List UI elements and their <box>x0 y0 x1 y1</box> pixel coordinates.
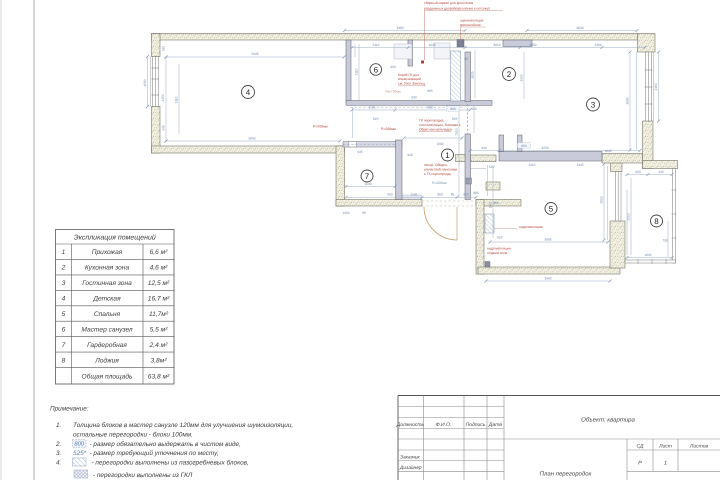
svg-text:940: 940 <box>481 146 487 150</box>
dim right window outside <box>658 52 660 121</box>
TABLE <box>56 230 175 385</box>
svg-text:Р: Р <box>638 461 642 467</box>
svg-text:4: 4 <box>62 296 66 303</box>
svg-text:800: 800 <box>427 105 433 109</box>
svg-text:1080: 1080 <box>436 142 443 146</box>
svg-text:Спальня: Спальня <box>94 311 121 318</box>
svg-text:лоджии пола: лоджии пола <box>487 251 507 255</box>
room circle 4 <box>242 86 255 99</box>
dashed line under partition <box>350 106 463 108</box>
svg-text:730: 730 <box>662 239 668 243</box>
threshold block <box>403 195 422 199</box>
dim hall v <box>458 108 460 197</box>
dim room6 top small <box>354 45 356 58</box>
svg-text:4450: 4450 <box>161 94 165 101</box>
explication table frame <box>56 230 175 385</box>
svg-text:525*: 525* <box>489 165 496 169</box>
dim room4 left v2 <box>178 64 180 134</box>
svg-text:1950: 1950 <box>342 211 349 215</box>
wall room5-loggia upper seg <box>611 161 623 172</box>
red leader long <box>424 11 426 60</box>
dim room5 h <box>490 241 608 243</box>
svg-text:R=200мм: R=200мм <box>381 127 396 131</box>
svg-text:5,5 м²: 5,5 м² <box>150 327 169 334</box>
svg-text:3010: 3010 <box>599 196 603 203</box>
svg-text:Листов: Листов <box>689 444 709 450</box>
dim below bottom right <box>486 280 610 282</box>
wall left exterior lower <box>152 107 161 154</box>
svg-text:3010: 3010 <box>493 43 500 47</box>
room circle 3 <box>587 98 600 111</box>
dim window left <box>147 57 149 107</box>
svg-text:3685: 3685 <box>544 237 551 241</box>
partition rooms3-5 gray <box>499 152 602 162</box>
svg-text:610: 610 <box>162 46 166 52</box>
svg-text:Короб ГК для: Короб ГК для <box>398 73 419 77</box>
svg-text:Детская: Детская <box>92 296 121 303</box>
dim hall extra h <box>471 168 486 170</box>
svg-text:8: 8 <box>62 357 66 364</box>
svg-text:940: 940 <box>162 125 166 131</box>
room circle 1 <box>442 149 454 161</box>
svg-text:Лист: Лист <box>658 444 672 450</box>
svg-text:860: 860 <box>437 193 443 197</box>
dim hall extra v <box>487 165 489 196</box>
svg-text:1: 1 <box>445 151 450 160</box>
svg-text:3110: 3110 <box>174 96 178 103</box>
DIMS <box>143 26 674 283</box>
svg-text:445: 445 <box>658 170 664 174</box>
dim above top wall <box>345 30 466 32</box>
svg-text:11,7м²: 11,7м² <box>149 311 169 318</box>
red leader shaft <box>460 27 462 39</box>
svg-text:2150: 2150 <box>654 83 658 90</box>
svg-text:- перегородки выполнены из паз: - перегородки выполнены из пазогребневых… <box>92 460 249 467</box>
svg-text:525*: 525* <box>373 117 380 121</box>
svg-text:1345: 1345 <box>576 163 583 167</box>
dim room8 left v <box>630 178 632 255</box>
svg-text:Обратная прокладка: Обратная прокладка <box>419 127 452 131</box>
loggia glazing bottom <box>625 260 676 263</box>
svg-text:3: 3 <box>62 280 66 287</box>
svg-text:Узел 50мм: Узел 50мм <box>385 90 401 94</box>
svg-text:в ГК перегородку: в ГК перегородку <box>424 172 451 176</box>
svg-text:коммуникаций: коммуникаций <box>398 77 421 81</box>
svg-text:5: 5 <box>62 311 66 318</box>
dim room2 v <box>474 50 476 98</box>
svg-text:СД: СД <box>637 444 644 450</box>
svg-text:935: 935 <box>357 150 363 154</box>
dim room5 left v <box>492 166 494 238</box>
svg-text:Гостинная зона: Гостинная зона <box>82 280 132 287</box>
svg-text:Подпись: Подпись <box>466 422 486 428</box>
window room5 to loggia <box>616 172 622 222</box>
svg-text:1: 1 <box>664 461 667 467</box>
svg-text:- перегородки выполнены из ГКЛ: - перегородки выполнены из ГКЛ <box>93 472 193 479</box>
dim room5 v <box>603 164 605 240</box>
dim loggia top <box>627 174 672 176</box>
room circle 7 <box>361 170 373 182</box>
svg-text:1195: 1195 <box>411 193 418 197</box>
svg-text:Прихожая: Прихожая <box>92 249 123 256</box>
svg-text:R=200мм: R=200мм <box>313 125 328 129</box>
wall right below window <box>643 121 654 169</box>
wall rooms3-5 stipple left <box>471 155 497 162</box>
hatched box room5 <box>485 214 494 233</box>
svg-text:раздвижных дверей(крепление к: раздвижных дверей(крепление к потолку) <box>424 6 490 10</box>
svg-text:2050: 2050 <box>529 43 536 47</box>
pilaster top wall <box>503 40 532 47</box>
svg-text:остальные перегородки - блоки: остальные перегородки - блоки 100мм. <box>73 432 193 439</box>
dim room2 right v <box>523 52 525 99</box>
svg-text:Гардеробная: Гардеробная <box>87 342 127 349</box>
wall loggia top band <box>643 161 678 169</box>
svg-text:5840: 5840 <box>248 136 255 140</box>
svg-text:сборный каркас для крепления: сборный каркас для крепления <box>424 1 473 5</box>
svg-text:Должность: Должность <box>396 422 425 428</box>
svg-text:2.: 2. <box>55 441 61 448</box>
svg-text:Заказчик: Заказчик <box>400 454 421 460</box>
shaft hatched column <box>451 51 461 101</box>
entry door dashes <box>422 200 476 202</box>
svg-text:885: 885 <box>427 89 433 93</box>
svg-text:2110: 2110 <box>373 43 380 47</box>
dim corridor small v <box>352 107 354 138</box>
partition room7 top <box>343 142 402 148</box>
svg-text:3110: 3110 <box>529 163 536 167</box>
wall room4 bottom exterior <box>152 146 345 153</box>
svg-text:7: 7 <box>365 172 370 181</box>
room circle 2 <box>503 68 516 81</box>
svg-text:2: 2 <box>61 265 66 272</box>
svg-text:1630: 1630 <box>364 182 371 186</box>
dim loggia bottom <box>627 257 672 259</box>
svg-text:1620: 1620 <box>428 43 435 47</box>
svg-text:Лоджия: Лоджия <box>94 357 119 364</box>
svg-text:1500: 1500 <box>143 79 147 86</box>
svg-text:1950: 1950 <box>519 74 523 81</box>
partition hall upper <box>465 52 471 102</box>
titleblock h lines left <box>398 406 504 408</box>
window right wall <box>646 52 652 121</box>
wall lower-left vertical exterior <box>476 200 484 275</box>
dim above wall right segment <box>527 30 637 32</box>
svg-text:Кухонная зона: Кухонная зона <box>85 265 130 272</box>
svg-text:940: 940 <box>407 153 413 157</box>
room circle 5 <box>545 203 557 215</box>
svg-text:630: 630 <box>411 95 417 99</box>
dim loggia band ticks <box>626 190 628 255</box>
svg-text:План перегородок: План перегородок <box>540 471 593 478</box>
svg-text:Дата: Дата <box>488 422 502 428</box>
partition stub kitchen a <box>499 135 504 152</box>
svg-text:Дизайнер: Дизайнер <box>399 465 422 471</box>
svg-text:1845: 1845 <box>604 149 611 153</box>
note 5 gkl legend <box>74 470 88 478</box>
svg-text:3630: 3630 <box>576 26 583 30</box>
svg-text:5: 5 <box>549 204 554 213</box>
svg-text:- размер обязательно выдержать: - размер обязательно выдержать в чистом … <box>90 441 242 448</box>
svg-text:885: 885 <box>473 191 479 195</box>
loggia glazing right <box>673 169 676 264</box>
svg-text:2400: 2400 <box>594 43 601 47</box>
svg-text:4: 4 <box>246 88 251 97</box>
svg-text:3680: 3680 <box>625 97 629 104</box>
svg-text:6,6 м²: 6,6 м² <box>150 249 169 256</box>
partition room7 right <box>396 140 403 200</box>
wall small stipple room5 <box>486 182 500 190</box>
titleblock v lines <box>423 396 425 480</box>
titleblock frame <box>398 395 720 397</box>
wall left exterior upper <box>152 34 161 57</box>
partition hall lower <box>465 134 471 200</box>
svg-text:6: 6 <box>62 327 66 334</box>
door pivot block <box>466 178 472 184</box>
fixture room6 a <box>394 44 412 59</box>
wall bottom right exterior <box>478 267 620 274</box>
svg-text:теплоизоляция, блоками с: теплоизоляция, блоками с <box>419 123 461 127</box>
wall top-right corner block <box>638 34 656 53</box>
svg-text:6: 6 <box>374 65 379 74</box>
svg-text:Толщина блоков в мастер санузл: Толщина блоков в мастер санузле 120мм дл… <box>73 422 293 429</box>
svg-text:3940: 3940 <box>544 276 551 280</box>
partition room6 stub <box>408 40 413 66</box>
wall loggia pier <box>610 221 625 268</box>
window left wall <box>153 57 159 107</box>
entry door arc <box>424 207 457 240</box>
svg-text:Экспликация помещений: Экспликация помещений <box>74 234 156 242</box>
svg-text:R=200мм: R=200мм <box>432 181 447 185</box>
svg-text:3,8м²: 3,8м² <box>151 357 168 364</box>
svg-text:800: 800 <box>450 107 456 111</box>
NOTES <box>50 406 293 479</box>
partition rooms4-6 <box>346 40 351 102</box>
wall rooms3-5 stipple right <box>602 154 643 164</box>
TITLEBLOCK <box>396 396 720 480</box>
svg-text:800: 800 <box>463 193 469 197</box>
dashed opening hall <box>467 104 469 134</box>
svg-text:85: 85 <box>451 193 455 197</box>
dim room3 bottom <box>470 150 640 152</box>
svg-text:900: 900 <box>635 170 641 174</box>
wall bottom mid left of entry <box>336 200 422 207</box>
svg-text:3: 3 <box>591 100 596 109</box>
wall block near room1 <box>456 155 466 162</box>
dim room7 <box>346 186 395 188</box>
svg-text:1195: 1195 <box>369 105 376 109</box>
svg-text:4,6 м²: 4,6 м² <box>150 265 169 272</box>
wall bottom mid right of entry <box>476 200 521 207</box>
svg-text:шумоизоляция: шумоизоляция <box>460 18 483 22</box>
room circle 6 <box>370 64 382 76</box>
svg-text:Примечание:: Примечание: <box>50 406 89 413</box>
sheet frame left margin line <box>33 0 35 480</box>
RED ANNOTATIONS <box>313 1 543 255</box>
svg-text:кронштейнов: кронштейнов <box>460 23 481 27</box>
room circle 8 <box>651 215 663 227</box>
svg-text:800: 800 <box>74 441 84 448</box>
svg-text:гидроизоляция: гидроизоляция <box>487 247 511 251</box>
svg-text:525*: 525* <box>452 117 459 121</box>
svg-text:2,4 м²: 2,4 м² <box>149 342 169 349</box>
shaft dark block <box>457 40 464 48</box>
dim room4 bottom <box>166 140 340 142</box>
svg-text:16,7 м²: 16,7 м² <box>148 296 170 303</box>
svg-text:1845: 1845 <box>644 253 651 257</box>
svg-text:390: 390 <box>493 201 499 205</box>
svg-text:- размер требующий уточнения п: - размер требующий уточнения по месту, <box>90 450 219 457</box>
svg-text:зонир. Обеден.: зонир. Обеден. <box>424 163 448 167</box>
svg-text:2910: 2910 <box>454 128 458 135</box>
fixture room6 b <box>434 43 450 59</box>
svg-text:1625: 1625 <box>470 71 474 78</box>
svg-text:525*: 525* <box>73 450 87 457</box>
svg-text:1.: 1. <box>56 422 61 429</box>
svg-text:Мастер санузел: Мастер санузел <box>81 327 133 334</box>
svg-text:гидроизоляция: гидроизоляция <box>519 225 543 229</box>
dim room4 left v1 <box>165 57 167 141</box>
svg-text:2: 2 <box>507 70 512 79</box>
svg-text:см. Узел Закольц: см. Узел Закольц <box>398 82 425 86</box>
svg-text:3480: 3480 <box>396 26 403 30</box>
wall top exterior <box>152 34 638 41</box>
svg-text:95: 95 <box>464 57 468 61</box>
svg-text:8: 8 <box>654 217 659 226</box>
svg-text:2110: 2110 <box>354 68 358 75</box>
svg-text:900: 900 <box>390 65 396 69</box>
svg-text:63,8 м²: 63,8 м² <box>148 373 170 380</box>
svg-text:Ф.И.О.: Ф.И.О. <box>436 422 452 428</box>
svg-text:525*: 525* <box>497 236 504 240</box>
svg-text:12,5 м²: 12,5 м² <box>148 280 170 287</box>
svg-text:и/влагозаб.панелями: и/влагозаб.панелями <box>424 168 457 172</box>
partition stub kitchen b <box>518 135 523 152</box>
wall step down exterior <box>336 146 345 206</box>
svg-text:ГК перегородка,: ГК перегородка, <box>419 119 444 123</box>
dim loggia right v <box>667 221 669 257</box>
dim hall h <box>352 109 470 111</box>
svg-text:4.: 4. <box>56 460 61 467</box>
dim above entry wall <box>346 196 476 198</box>
svg-text:525*: 525* <box>488 201 492 208</box>
partition below room6 <box>346 101 492 106</box>
svg-text:550: 550 <box>387 193 393 197</box>
dim room3 right v <box>629 52 631 150</box>
svg-text:1: 1 <box>62 249 66 256</box>
dim room6 vertical <box>358 44 360 101</box>
svg-text:5935: 5935 <box>251 52 258 56</box>
svg-text:85: 85 <box>362 211 366 215</box>
svg-text:Общая площадь: Общая площадь <box>81 373 133 380</box>
svg-text:800: 800 <box>521 144 527 148</box>
svg-text:7: 7 <box>62 342 66 349</box>
svg-text:3.: 3. <box>56 450 61 457</box>
dim top band across 6-2-3 <box>352 47 645 49</box>
svg-text:3235: 3235 <box>541 146 548 150</box>
svg-text:Объект: квартира: Объект: квартира <box>581 417 635 424</box>
dim room4 top <box>166 56 344 58</box>
sheet border left edge <box>0 0 2 480</box>
dim right of wall56 <box>607 166 609 240</box>
